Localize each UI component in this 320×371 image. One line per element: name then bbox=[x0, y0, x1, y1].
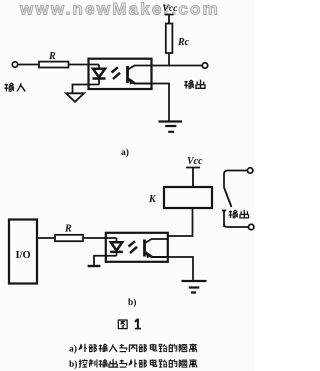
label 输出 (a) bbox=[184, 80, 205, 89]
switch lower terminal circle bbox=[249, 224, 254, 229]
wire R to optocoupler bbox=[69, 64, 100, 66]
svg-text:www.newMaker.com: www.newMaker.com bbox=[19, 0, 220, 19]
phototransistor Q1 (a) bbox=[128, 66, 153, 84]
watermark www.newMaker.com bbox=[19, 0, 220, 19]
figure title 图 1 bbox=[118, 320, 127, 329]
LED D1 (a) bbox=[93, 65, 106, 85]
resistor R (a) bbox=[39, 62, 69, 68]
label 输入 (a) bbox=[5, 83, 26, 91]
wire top terminal to switch bbox=[224, 171, 248, 188]
svg-text:Vcc: Vcc bbox=[162, 3, 178, 14]
resistor Rc bbox=[166, 24, 173, 54]
wire LED cathode to ground (b) bbox=[94, 256, 117, 266]
Vcc supply bar (b) bbox=[186, 168, 200, 188]
wire R to optocoupler (b) bbox=[83, 237, 117, 239]
Vcc supply bar (a) bbox=[165, 15, 174, 24]
light arrows (a) bbox=[112, 67, 121, 79]
wire lower contact to terminal bbox=[224, 224, 249, 228]
svg-text:K: K bbox=[148, 194, 157, 205]
switch arm bbox=[224, 188, 232, 208]
wire Rc to collector node bbox=[168, 53, 170, 66]
svg-text:Vcc: Vcc bbox=[187, 156, 203, 167]
svg-text:a): a) bbox=[69, 344, 77, 355]
wire emitter to ground (a) bbox=[152, 84, 169, 121]
svg-text:R: R bbox=[64, 224, 72, 235]
wire input to R bbox=[18, 64, 39, 66]
LED D2 (b) bbox=[110, 238, 123, 256]
ground symbol (a) bbox=[159, 122, 183, 132]
svg-text:b): b) bbox=[69, 359, 77, 370]
output terminal circle (a) bbox=[202, 63, 207, 68]
ground symbol (b right) bbox=[182, 281, 207, 293]
light arrows (b) bbox=[129, 241, 138, 253]
I/O box bbox=[9, 220, 37, 284]
svg-text:R: R bbox=[48, 51, 56, 62]
label 输出 (b) bbox=[229, 210, 249, 218]
wire collector to output bbox=[152, 65, 202, 67]
svg-text:b): b) bbox=[128, 297, 136, 308]
wire I/O to R bbox=[37, 237, 55, 239]
svg-text:a): a) bbox=[121, 147, 129, 158]
resistor R (b) bbox=[55, 235, 83, 241]
switch lower contact bbox=[222, 211, 226, 228]
wire relay to collector bbox=[168, 208, 193, 236]
input terminal circle (a) bbox=[12, 62, 17, 67]
relay coil K box bbox=[164, 187, 212, 208]
caption line 2: b)控制输出与外部电路的隔离 bbox=[69, 359, 197, 370]
ground bar (b left) bbox=[88, 265, 101, 267]
wire LED cathode to ground (a) bbox=[73, 85, 100, 94]
optocoupler U2 box bbox=[106, 233, 168, 262]
optocoupler U1 box bbox=[89, 59, 152, 89]
phototransistor Q2 (b) bbox=[145, 239, 168, 257]
wire emitter to ground (b) bbox=[168, 257, 193, 280]
svg-text:Rc: Rc bbox=[177, 37, 190, 48]
svg-text:I/O: I/O bbox=[16, 250, 31, 261]
caption line 1: a)外部输入与内部电路的隔离 bbox=[69, 344, 197, 355]
chassis ground triangle (a) bbox=[66, 93, 84, 102]
switch top terminal circle bbox=[248, 168, 253, 173]
